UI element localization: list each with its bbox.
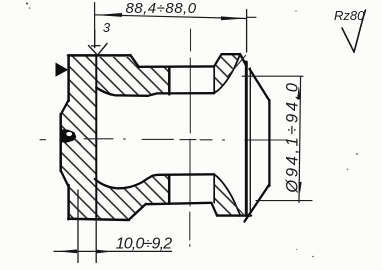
- outer profile: left face: [67, 55, 70, 101]
- hatch top band: [97, 57, 169, 96]
- window edge left bottom: [168, 175, 171, 204]
- flange bottom edge: [68, 219, 129, 220]
- left face lower: [67, 185, 70, 219]
- leader of 3: [94, 30, 96, 48]
- extension line x78: [77, 190, 79, 263]
- neck bottom edge: [146, 203, 212, 204]
- svg-text:10,0÷9,2: 10,0÷9,2: [116, 236, 173, 253]
- bore left face: [95, 55, 97, 219]
- roughness check mark: [342, 28, 354, 52]
- svg-text:88,4÷88,0: 88,4÷88,0: [125, 0, 196, 17]
- arrowhead up: [297, 86, 301, 100]
- wire: horizontal centerline: [40, 139, 287, 140]
- window edge right top: [213, 67, 215, 94]
- hatch rim sliver top right: [215, 55, 240, 93]
- rim top edge: [222, 53, 241, 55]
- bore top wall: [96, 88, 214, 96]
- wire: vertical axis dash-dot x=190: [189, 29, 192, 247]
- hatch rim sliver bottom right: [215, 175, 240, 216]
- leader arrow V: [89, 44, 108, 56]
- chamfer neck/flange bottom: [129, 204, 146, 220]
- boss chamfer top: [61, 100, 69, 115]
- hatch stroke across rim corner: [228, 56, 246, 77]
- arrowhead right: [221, 16, 246, 20]
- boss face: [59, 114, 62, 171]
- frustum right face: [268, 100, 270, 186]
- arrowhead left out: [57, 249, 77, 253]
- extension line x96 below part: [95, 219, 97, 262]
- extension line right of 88 dim: [246, 10, 248, 53]
- datum triangle on left face: [56, 63, 69, 77]
- chamfer flange/neck top: [130, 55, 138, 67]
- svg-text:Ø94,1÷94,0: Ø94,1÷94,0: [284, 80, 302, 193]
- rim chamfer up: [214, 54, 222, 66]
- end face thick: [245, 62, 248, 215]
- dimension O94 vertical line: [299, 76, 301, 202]
- specks: [26, 3, 28, 5]
- boss chamfer bottom: [61, 171, 69, 187]
- end face inner line: [249, 68, 251, 212]
- extension line left of 88 dim: [94, 3, 96, 31]
- bore wall falling right: [214, 174, 240, 214]
- frustum bottom chamfer: [245, 185, 270, 222]
- arrowhead down: [299, 182, 302, 194]
- top edge: [68, 54, 131, 57]
- bore bottom wall: [95, 174, 214, 188]
- arrowhead right out: [96, 250, 112, 254]
- dimension 10,0/9,2 line: [54, 250, 172, 252]
- neck top edge: [139, 65, 215, 68]
- svg-text:Rz80: Rz80: [334, 8, 365, 23]
- bottom edge under frustum: [239, 214, 251, 216]
- rim bottom edge: [217, 214, 240, 216]
- window edge right bottom: [213, 174, 215, 203]
- frustum top chamfer: [250, 69, 270, 101]
- hatch flange left column: [61, 57, 96, 220]
- rim chamfer down: [212, 203, 218, 216]
- center hole blob on boss: [61, 129, 76, 142]
- window edge left top: [168, 67, 171, 94]
- dimension 88,4/88,0 line: [95, 15, 246, 19]
- arrowhead left: [96, 13, 122, 17]
- bore wall rising right: [214, 56, 240, 94]
- rim right drop: [240, 54, 247, 66]
- extension bottom of O94: [256, 200, 312, 202]
- svg-text:3: 3: [103, 20, 111, 35]
- extension top of O94: [242, 75, 303, 77]
- hatch bottom band: [97, 175, 169, 219]
